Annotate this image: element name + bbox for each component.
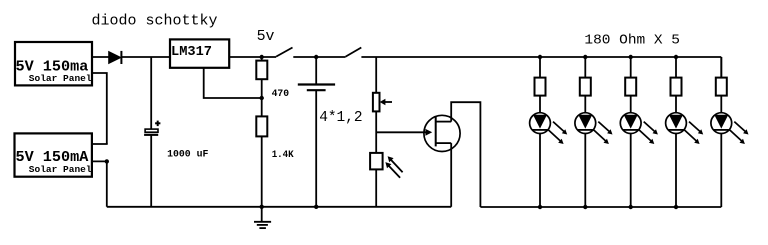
- switch S2 blade: [346, 48, 362, 57]
- node junction battery top: [314, 55, 318, 59]
- wire diode to LM317: [121, 56, 170, 58]
- wire switch S1 to battery: [293, 56, 345, 58]
- label 180 Ohm X 5: [584, 34, 680, 49]
- wire gate branch: [376, 131, 426, 133]
- wire PV2 top to series link: [92, 143, 108, 145]
- diode D1 schottky: [109, 51, 122, 64]
- svg-text:Solar Panel: Solar Panel: [29, 164, 92, 175]
- switch S1 blade: [276, 48, 292, 57]
- solar panel PV2: [15, 133, 92, 176]
- wire 1.4K to ground rail: [261, 136, 263, 206]
- label 470: [272, 89, 290, 100]
- label 1000 uF: [167, 149, 208, 160]
- wire 470 top stub: [261, 57, 263, 61]
- wire battery top stub: [315, 57, 317, 85]
- wire PV1 out to diode: [92, 56, 109, 58]
- wire LM317 ADJ: [204, 68, 262, 98]
- wire pot top stub: [375, 57, 377, 93]
- wire source to ground rail: [450, 143, 452, 207]
- LED branch 2 (resistor + LED D3): [575, 57, 613, 207]
- node junction PV2 bottom: [105, 159, 109, 163]
- wire battery bottom to ground rail: [315, 90, 317, 207]
- ground symbol: [254, 207, 271, 228]
- wire capacitor bottom to ground rail: [150, 135, 152, 207]
- wire LM317 out to switch S1: [229, 56, 276, 58]
- LED cathode rail right: [480, 206, 721, 208]
- svg-text:diodo schottky: diodo schottky: [92, 12, 218, 29]
- svg-text:4*1,2: 4*1,2: [319, 110, 362, 126]
- label 4*1,2: [319, 110, 362, 126]
- battery B1: [298, 85, 335, 91]
- LDR R3: [370, 153, 403, 178]
- node junction ground: [260, 205, 264, 209]
- potentiometer RV1: [373, 93, 392, 112]
- resistor R2 1.4K: [256, 116, 267, 136]
- node junction LED1 bottom: [538, 205, 542, 209]
- wire PV1 bottom to series link: [92, 73, 107, 144]
- label 1.4K: [272, 150, 294, 161]
- svg-text:Solar Panel: Solar Panel: [29, 73, 92, 84]
- LED branch 5 (resistor + LED D6): [711, 57, 749, 207]
- svg-text:470: 470: [272, 89, 290, 100]
- svg-text:180 Ohm X 5: 180 Ohm X 5: [584, 34, 680, 49]
- node junction LED2 bottom: [583, 205, 587, 209]
- node junction LED3 bottom: [629, 205, 633, 209]
- node junction LED4 top: [674, 55, 678, 59]
- wire 470 to 1.4K: [261, 79, 263, 116]
- label 5v: [257, 28, 275, 45]
- node junction LED2 top: [583, 55, 587, 59]
- svg-text:5v: 5v: [257, 28, 275, 45]
- wire LED rail right drop: [720, 57, 722, 78]
- node junction LED1 top: [538, 55, 542, 59]
- label diodo schottky: [92, 12, 218, 29]
- resistor R1 470: [256, 61, 267, 80]
- svg-text:LM317: LM317: [171, 45, 212, 60]
- MOSFET Q1: [424, 115, 460, 151]
- svg-text:1.4K: 1.4K: [272, 150, 294, 161]
- node junction ADJ: [260, 96, 264, 100]
- node junction resistor 470 top: [260, 55, 264, 59]
- svg-text:1000 uF: 1000 uF: [167, 149, 208, 160]
- wire drain loop: [451, 102, 480, 207]
- capacitor C1 plus mark: [155, 121, 160, 127]
- node junction LED4 bottom: [674, 205, 678, 209]
- capacitor C1 1000uF: [144, 129, 158, 135]
- LED branch 3 (resistor + LED D4): [620, 57, 658, 207]
- wire capacitor top tap: [150, 57, 152, 129]
- ground rail left: [107, 206, 451, 208]
- node junction battery bottom: [314, 205, 318, 209]
- wire LDR bottom to ground rail: [375, 169, 377, 206]
- solar panel PV1: [15, 42, 92, 85]
- wire pot to LDR: [375, 111, 377, 152]
- node junction LED3 top: [629, 55, 633, 59]
- wire PV2 bottom to ground rail: [92, 161, 107, 206]
- LED branch 1 (resistor + LED D2): [530, 57, 568, 207]
- LED branch 4 (resistor + LED D5): [666, 57, 704, 207]
- wire switch S2 to LED rail: [361, 56, 721, 58]
- regulator U1 LM317: [170, 39, 229, 67]
